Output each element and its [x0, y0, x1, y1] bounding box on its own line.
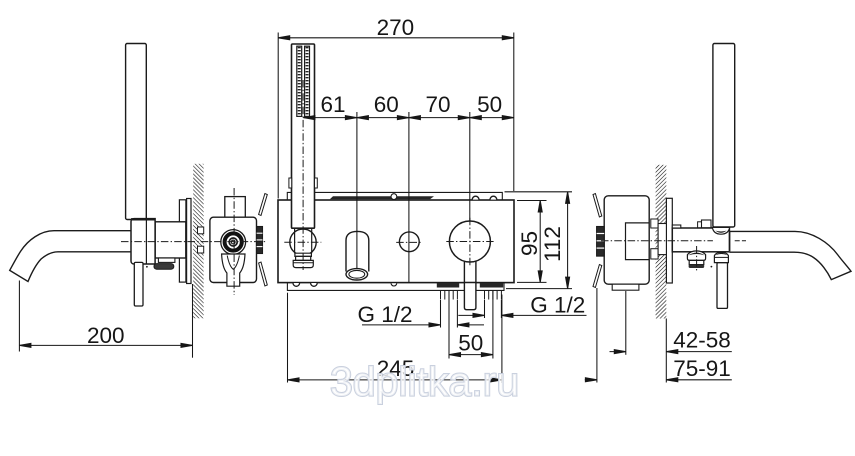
handle horizontal centerline — [446, 241, 493, 243]
spout (side view, curving right) — [729, 231, 851, 279]
chain dim line 61/60/70/50 — [303, 117, 513, 119]
handle rod (side, pointing down) — [717, 263, 728, 309]
handshower fitting horizontal centerline — [284, 241, 321, 243]
dim 50 line — [449, 354, 493, 356]
valve center circle — [229, 238, 237, 246]
rough-in valve upper port (behind wall) — [225, 197, 246, 218]
svg-text:112: 112 — [540, 226, 565, 262]
mixer body block B (side) — [155, 222, 186, 258]
svg-text:270: 270 — [377, 15, 415, 40]
dim 200 extension lines — [18, 281, 20, 352]
diverter knob (side) — [687, 251, 705, 261]
spout (side view, curving left) — [10, 231, 131, 282]
G 1/2 left extension lines — [440, 300, 442, 328]
centerline horizontal (right view axis) — [601, 240, 713, 242]
valve ribbed adapter (right side) — [257, 227, 263, 254]
svg-text:200: 200 — [87, 323, 125, 348]
svg-text:60: 60 — [374, 92, 399, 117]
pipe 2 nipple ribs — [485, 290, 502, 299]
bell inner arcs — [227, 256, 239, 270]
valve ribbed adapter (left side) — [597, 227, 605, 257]
dim 42-58 line — [610, 351, 626, 353]
spout outlet outer ellipse — [346, 269, 368, 280]
escutcheon backplate (side) — [179, 200, 186, 282]
extension line diverter center — [408, 112, 410, 283]
mounting clip top (behind wall) — [259, 194, 268, 216]
shower holder block A (side) — [131, 219, 155, 264]
centerline horizontal (left view axis) — [121, 241, 267, 243]
G 1/2 right leader — [458, 314, 484, 316]
bottom screw half circles — [293, 283, 300, 286]
backplate bottom strip — [287, 283, 504, 291]
handle rod (side, pointing down) — [134, 262, 143, 306]
dim 42-58 extension lines — [625, 291, 627, 355]
wall plate (side) — [187, 199, 191, 284]
dim 270 line — [278, 37, 514, 39]
diverter horizontal centerline — [396, 241, 422, 243]
diverter circle (front) — [399, 232, 419, 252]
wall hatching (right view wall section) — [656, 165, 667, 319]
clamp tab under body — [158, 258, 175, 262]
centerline vertical (valve axis) — [233, 188, 235, 295]
valve bell outlet — [222, 254, 245, 286]
svg-text:3dplitka.ru: 3dplitka.ru — [330, 359, 519, 405]
mounting plate — [278, 200, 514, 283]
dim 95 extension lines — [517, 200, 547, 202]
svg-text:50: 50 — [477, 92, 502, 117]
wall anchor block — [658, 224, 666, 255]
valve outer circle — [221, 230, 246, 255]
small dot detail — [146, 266, 148, 268]
holder lip dark edge — [131, 218, 155, 220]
svg-text:G 1/2: G 1/2 — [357, 302, 412, 327]
valve bottom tab — [612, 284, 639, 290]
body right edge below bar — [729, 232, 731, 252]
spray nozzle strip 1 — [297, 46, 302, 116]
wall screw block upper — [651, 219, 658, 228]
pipe 1 nipple ribs — [441, 290, 458, 299]
wall plate (side) — [666, 198, 672, 283]
dim 50 extension lines (pipe centers) — [448, 291, 450, 359]
hose nut — [295, 253, 312, 256]
handle lever on plate — [463, 261, 465, 282]
bottom dark bar right (pipe 2 union) — [480, 283, 503, 288]
svg-text:70: 70 — [425, 92, 450, 117]
mounting clip top — [593, 194, 602, 218]
wall hatching (left view wall section) — [193, 164, 203, 318]
valve black ring — [225, 233, 242, 250]
rod collar — [714, 252, 728, 262]
dim 270 extension lines — [277, 33, 279, 199]
spout column (front) — [346, 231, 369, 271]
dim 95 line — [539, 201, 541, 283]
svg-text:50: 50 — [458, 330, 483, 355]
svg-text:61: 61 — [320, 92, 345, 117]
wall screw blocks — [198, 227, 204, 234]
diverter knob dark band — [688, 253, 704, 256]
centerline vertical (diverter axis) — [696, 246, 698, 273]
small dot detail — [711, 266, 713, 268]
handshower bar (side view, standing up) — [713, 44, 735, 228]
spout outlet inner ellipse — [349, 270, 365, 278]
bottom dark bar left (pipe 1 union) — [437, 283, 459, 288]
handshower body (front) — [292, 44, 315, 228]
diverter knob (side, dark rounded bar) — [154, 264, 174, 270]
handshower holder tabs — [289, 178, 292, 188]
dim 245 extension lines — [287, 293, 289, 383]
dim 112 line — [567, 192, 569, 289]
extension line handle center — [469, 112, 471, 221]
valve cartridge inner lines — [626, 223, 650, 260]
mounting clip bottom (behind wall) — [259, 262, 268, 286]
handshower bar (side view, standing up) — [126, 44, 147, 220]
body top step — [672, 225, 681, 228]
svg-text:G 1/2: G 1/2 — [530, 293, 585, 318]
svg-text:75-91: 75-91 — [673, 356, 731, 381]
G 1/2 left leader — [362, 324, 441, 326]
holder inner line — [145, 219, 147, 264]
spray nozzle strip 2 — [305, 46, 310, 116]
bar holder socket on body top — [698, 222, 702, 228]
handle vertical centerline — [469, 218, 471, 265]
holder cup under bar — [712, 227, 729, 234]
mixer body cylinder (side) — [672, 228, 729, 252]
handshower hose fitting circle — [290, 229, 316, 255]
handle lever below plate — [464, 283, 476, 310]
G 1/2 right extension lines — [484, 300, 486, 318]
dim 75-91 extension line — [596, 288, 598, 383]
handshower centerline — [302, 80, 304, 270]
dim 245 line — [288, 379, 502, 381]
dim 75-91 line — [585, 379, 597, 381]
handle circle (front) — [449, 221, 490, 262]
mounting clip bottom — [593, 265, 602, 288]
top-right screw circles — [472, 196, 479, 199]
extension line spout center — [356, 112, 358, 269]
rough-in valve main box (behind wall) — [210, 217, 257, 282]
slot screw circle — [391, 194, 397, 200]
fitting cylinder sides — [294, 228, 296, 253]
backplate top strip — [287, 192, 502, 200]
backplate top dark slot — [330, 196, 434, 199]
rough-in valve main box (left of wall) — [604, 196, 649, 284]
dim 112 extension lines — [505, 191, 573, 193]
wall screw block lower — [651, 249, 658, 259]
svg-text:95: 95 — [517, 231, 542, 256]
dim 200 line — [19, 344, 192, 346]
svg-text:42-58: 42-58 — [673, 328, 731, 353]
